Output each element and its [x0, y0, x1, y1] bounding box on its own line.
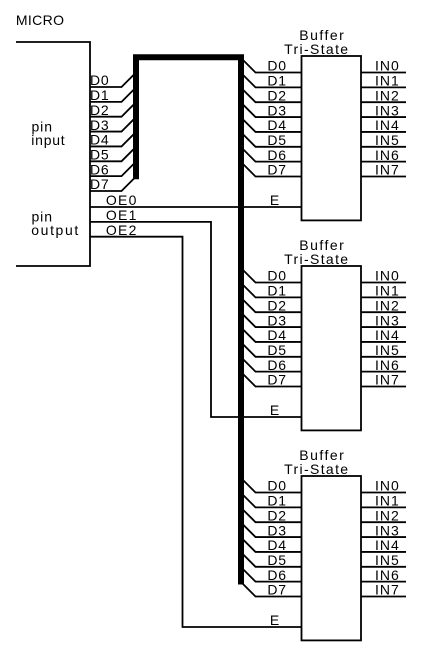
svg-text:OE1: OE1: [106, 207, 138, 223]
svg-text:D4: D4: [267, 327, 287, 343]
svg-text:D3: D3: [90, 117, 110, 133]
svg-text:D5: D5: [267, 132, 287, 148]
svg-text:D2: D2: [267, 297, 287, 313]
svg-text:D1: D1: [267, 283, 287, 299]
svg-text:D7: D7: [267, 372, 287, 388]
svg-text:IN1: IN1: [375, 283, 400, 299]
svg-text:D7: D7: [267, 582, 287, 598]
svg-text:D3: D3: [267, 522, 287, 538]
svg-text:D5: D5: [267, 552, 287, 568]
svg-text:IN4: IN4: [375, 327, 400, 343]
svg-text:D7: D7: [90, 176, 110, 192]
svg-text:IN6: IN6: [375, 147, 400, 163]
svg-text:IN3: IN3: [375, 102, 400, 118]
svg-text:D1: D1: [267, 493, 287, 509]
svg-text:IN7: IN7: [375, 162, 400, 178]
svg-text:IN2: IN2: [375, 297, 400, 313]
svg-text:IN5: IN5: [375, 342, 400, 358]
svg-text:IN0: IN0: [375, 268, 400, 284]
svg-text:D4: D4: [267, 117, 287, 133]
svg-text:IN4: IN4: [375, 537, 400, 553]
svg-text:E: E: [270, 612, 279, 628]
svg-text:IN7: IN7: [375, 372, 400, 388]
svg-text:D0: D0: [267, 268, 287, 284]
svg-text:D6: D6: [267, 147, 287, 163]
svg-text:IN5: IN5: [375, 552, 400, 568]
svg-text:E: E: [270, 402, 279, 418]
svg-text:IN2: IN2: [375, 87, 400, 103]
svg-text:D0: D0: [267, 478, 287, 494]
svg-text:IN3: IN3: [375, 522, 400, 538]
svg-text:input: input: [31, 132, 65, 148]
svg-text:D0: D0: [90, 72, 110, 88]
svg-text:D1: D1: [267, 73, 287, 89]
svg-text:OE0: OE0: [106, 192, 138, 208]
svg-text:D3: D3: [267, 102, 287, 118]
svg-text:D6: D6: [267, 567, 287, 583]
svg-text:IN6: IN6: [375, 567, 400, 583]
svg-text:D6: D6: [90, 161, 110, 177]
svg-text:D7: D7: [267, 162, 287, 178]
svg-text:OE2: OE2: [106, 222, 138, 238]
svg-text:IN0: IN0: [375, 478, 400, 494]
svg-text:IN5: IN5: [375, 132, 400, 148]
svg-text:D2: D2: [267, 507, 287, 523]
svg-text:MICRO: MICRO: [16, 12, 64, 28]
svg-text:IN7: IN7: [375, 582, 400, 598]
svg-text:output: output: [31, 222, 80, 238]
svg-text:IN3: IN3: [375, 312, 400, 328]
svg-text:IN2: IN2: [375, 507, 400, 523]
svg-text:IN4: IN4: [375, 117, 400, 133]
svg-text:D2: D2: [267, 87, 287, 103]
svg-text:IN1: IN1: [375, 73, 400, 89]
svg-text:IN1: IN1: [375, 493, 400, 509]
svg-text:Tri-State: Tri-State: [284, 461, 349, 477]
svg-text:IN6: IN6: [375, 357, 400, 373]
svg-text:D3: D3: [267, 312, 287, 328]
svg-text:D4: D4: [90, 132, 110, 148]
svg-text:E: E: [270, 192, 279, 208]
svg-text:D6: D6: [267, 357, 287, 373]
svg-text:Tri-State: Tri-State: [284, 251, 349, 267]
svg-text:Tri-State: Tri-State: [284, 41, 349, 57]
svg-text:D1: D1: [90, 87, 110, 103]
svg-text:D4: D4: [267, 537, 287, 553]
svg-text:D5: D5: [90, 146, 110, 162]
svg-text:D2: D2: [90, 102, 110, 118]
svg-text:D5: D5: [267, 342, 287, 358]
svg-text:IN0: IN0: [375, 58, 400, 74]
svg-text:D0: D0: [267, 58, 287, 74]
